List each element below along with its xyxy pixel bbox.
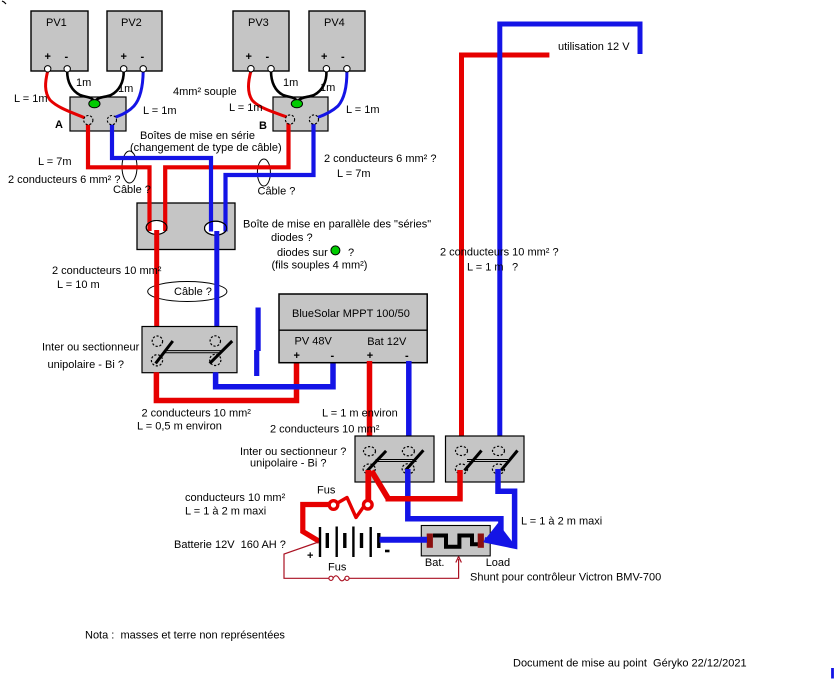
- wire red S2 diagonal to fuse bus: [372, 471, 389, 498]
- wire PV4- blue to box B: [318, 71, 347, 118]
- switch box S2: [355, 436, 434, 482]
- svg-text:L = 1 m: L = 1 m: [467, 262, 504, 274]
- svg-text:?: ?: [512, 262, 518, 274]
- wire PV1+ red to box A: [46, 71, 85, 118]
- svg-text:conducteurs 10 mm²: conducteurs 10 mm²: [185, 492, 286, 504]
- svg-text:Load: Load: [486, 557, 510, 569]
- svg-text:L = 0,5 m environ: L = 0,5 m environ: [137, 421, 222, 433]
- svg-text:2 conducteurs 10 mm²: 2 conducteurs 10 mm²: [52, 265, 162, 277]
- svg-text:PV3: PV3: [248, 17, 269, 29]
- svg-text:-: -: [405, 350, 409, 362]
- wire red S2 feed to fuse F1: [365, 470, 371, 501]
- svg-text:Document de mise au point Gér: Document de mise au point Géryko 22/12/2…: [513, 658, 747, 670]
- svg-text:2 conducteurs 10 mm² ?: 2 conducteurs 10 mm² ?: [440, 247, 559, 259]
- svg-text:1m: 1m: [283, 77, 298, 89]
- battery minus tick: [385, 550, 390, 553]
- svg-text:2 conducteurs 10 mm²: 2 conducteurs 10 mm²: [270, 424, 380, 436]
- svg-text:-: -: [65, 51, 69, 63]
- parallel box terminal outlines over wires: [146, 221, 167, 235]
- fuse F1 terminals: [329, 501, 338, 510]
- svg-text:L = 1m: L = 1m: [229, 102, 263, 114]
- parallel junction box: [137, 203, 235, 250]
- red bus from diagonal to S3: [386, 470, 461, 499]
- box B terminal pins: [285, 115, 294, 124]
- svg-text:2 conducteurs 10 mm²: 2 conducteurs 10 mm²: [142, 408, 252, 420]
- svg-text:2 conducteurs 6 mm² ?: 2 conducteurs 6 mm² ?: [324, 153, 437, 165]
- svg-text:L = 1 à 2 m maxi: L = 1 à 2 m maxi: [185, 506, 266, 518]
- fuse F2 terminals: [329, 576, 333, 580]
- PV panel PV4: [309, 11, 365, 71]
- svg-text:+: +: [45, 51, 51, 63]
- parallel box right terminal: [205, 221, 227, 235]
- svg-text:unipolaire - Bi ?: unipolaire - Bi ?: [48, 359, 124, 371]
- PV3 terminal pins: [248, 66, 254, 72]
- series box A: [70, 97, 126, 131]
- wire PV1- black to node A diode: [67, 71, 93, 101]
- PV2 terminal pins: [121, 66, 127, 72]
- svg-text:L = 7m: L = 7m: [38, 156, 72, 168]
- wire red MPPT Bat+ to switch S2: [367, 361, 373, 448]
- svg-text:L = 1m: L = 1m: [143, 105, 177, 117]
- svg-text:Inter ou sectionneur ?: Inter ou sectionneur ?: [240, 446, 346, 458]
- svg-text:unipolaire - Bi ?: unipolaire - Bi ?: [250, 458, 326, 470]
- annotation ellipse cable horizontal: [148, 282, 227, 302]
- wire PV2- blue to box A: [115, 71, 144, 118]
- wire blue junction wedge at shunt Load: [483, 523, 517, 548]
- svg-text:-: -: [331, 350, 335, 362]
- svg-text:L = 1 à 2 m maxi: L = 1 à 2 m maxi: [521, 516, 602, 528]
- svg-text:Boîte de mise en parallèle des: Boîte de mise en parallèle des "séries": [243, 219, 431, 231]
- svg-text:(changement de type de câble): (changement de type de câble): [130, 142, 282, 154]
- PV1 terminal pins: [45, 66, 51, 72]
- box A terminal pins: [84, 116, 93, 125]
- wire box A blue to parallel box: [112, 122, 211, 232]
- svg-text:diodes sur: diodes sur: [277, 247, 328, 259]
- svg-text:B: B: [259, 120, 267, 132]
- wire red parallel box to switch S1: [154, 230, 159, 327]
- svg-text:L = 7m: L = 7m: [337, 168, 371, 180]
- svg-text:Câble ?: Câble ?: [113, 184, 151, 196]
- svg-text:-: -: [266, 51, 270, 63]
- parallel box left terminal: [146, 221, 167, 235]
- svg-text:PV2: PV2: [121, 17, 142, 29]
- PV panel PV2: [107, 11, 162, 71]
- wire blue S3 to shunt Load: [485, 469, 515, 546]
- wire blue S2 to shunt Load: [408, 469, 501, 541]
- svg-text:-: -: [341, 51, 345, 63]
- svg-text:L = 10 m: L = 10 m: [57, 279, 100, 291]
- battery B1 plates: [320, 527, 379, 558]
- wire box A red to parallel box: [88, 122, 150, 231]
- svg-text:L = 1m: L = 1m: [346, 104, 380, 116]
- svg-text:1m: 1m: [320, 82, 335, 94]
- svg-text:Câble ?: Câble ?: [258, 186, 296, 198]
- svg-text:Shunt pour contrôleur Victron: Shunt pour contrôleur Victron BMV-700: [470, 572, 661, 584]
- stray mark top-left: [2, 1, 6, 4]
- switch box S1: [142, 327, 237, 373]
- svg-text:L = 1m: L = 1m: [14, 93, 48, 105]
- wire red fuse to battery +: [303, 505, 330, 542]
- svg-text:-: -: [141, 51, 145, 63]
- svg-text:BlueSolar MPPT 100/50: BlueSolar MPPT 100/50: [292, 308, 410, 320]
- PV panel PV3: [233, 11, 289, 71]
- wire box B red to parallel box: [165, 122, 288, 231]
- PV4 terminal pins: [323, 66, 329, 72]
- diode green dot in text: [331, 246, 340, 255]
- annotation ellipse cable left: [122, 151, 137, 183]
- svg-text:L = 1 m environ: L = 1 m environ: [322, 408, 398, 420]
- shunt SH1: [421, 526, 490, 556]
- svg-text:PV 48V: PV 48V: [295, 336, 333, 348]
- thin sense wire battery+ to shunt: [284, 542, 329, 578]
- wire PV3+ red to box B: [248, 71, 287, 117]
- svg-text:2 conducteurs 6 mm² ?: 2 conducteurs 6 mm² ?: [8, 174, 121, 186]
- PV panel PV1: [31, 11, 88, 71]
- svg-text:diodes ?: diodes ?: [271, 232, 313, 244]
- svg-text:Boîtes de mise en série: Boîtes de mise en série: [140, 130, 255, 142]
- svg-text:1m: 1m: [76, 77, 91, 89]
- svg-text:Nota : masses et terre non re: Nota : masses et terre non représentées: [85, 630, 285, 642]
- svg-text:1m: 1m: [118, 83, 133, 95]
- svg-text:(fils souples 4 mm²): (fils souples 4 mm²): [272, 260, 368, 272]
- svg-text:+: +: [321, 51, 327, 63]
- svg-text:utilisation 12 V: utilisation 12 V: [558, 41, 630, 53]
- annotation ellipse cable right: [257, 159, 270, 186]
- dangling blue stub wire: [256, 308, 261, 352]
- svg-text:Bat.: Bat.: [425, 557, 445, 569]
- svg-text:+: +: [246, 51, 252, 63]
- svg-text:Inter ou sectionneur: Inter ou sectionneur: [42, 342, 140, 354]
- wire blue parallel box to switch S1: [214, 231, 219, 327]
- diode node B (green): [291, 100, 302, 108]
- fuse F1 squiggle: [338, 498, 365, 518]
- MPPT controller U1: [279, 294, 427, 363]
- svg-text:+: +: [307, 550, 313, 562]
- svg-text:+: +: [367, 350, 373, 362]
- wire PV2+ black to node A diode: [96, 71, 124, 101]
- arrow to shunt: [456, 557, 462, 563]
- wire PV4+ black to node B diode: [299, 71, 327, 101]
- wire blue S1 to MPPT PV-: [216, 362, 333, 387]
- stray blue tick bottom right: [831, 668, 834, 679]
- wire PV3- black to node B diode: [271, 71, 297, 101]
- wire red S1 to MPPT PV+: [156, 362, 296, 401]
- wire box B blue to parallel box: [226, 122, 314, 232]
- wire blue MPPT Bat- to switch S2: [406, 361, 412, 448]
- svg-text:Câble ?: Câble ?: [174, 286, 212, 298]
- svg-text:PV4: PV4: [324, 17, 345, 29]
- wire blue utilisation 12V return: [500, 24, 640, 448]
- fuse F2 squiggle: [333, 576, 345, 581]
- svg-text:Fus: Fus: [328, 562, 347, 574]
- svg-text:Fus: Fus: [317, 485, 336, 497]
- svg-text:+: +: [121, 51, 127, 63]
- svg-text:A: A: [55, 119, 63, 131]
- series box B: [273, 97, 328, 131]
- svg-text:+: +: [294, 350, 300, 362]
- wire red utilisation 12V feed: [462, 55, 550, 448]
- svg-text:Batterie 12V 160 AH ?: Batterie 12V 160 AH ?: [174, 539, 286, 551]
- svg-text:Bat 12V: Bat 12V: [367, 336, 407, 348]
- svg-text:?: ?: [348, 247, 354, 259]
- wire blue battery to shunt Bat: [380, 537, 428, 543]
- diode node A (green): [89, 100, 100, 108]
- switch box S3: [446, 436, 525, 482]
- svg-text:4mm² souple: 4mm² souple: [173, 86, 237, 98]
- svg-text:PV1: PV1: [46, 17, 67, 29]
